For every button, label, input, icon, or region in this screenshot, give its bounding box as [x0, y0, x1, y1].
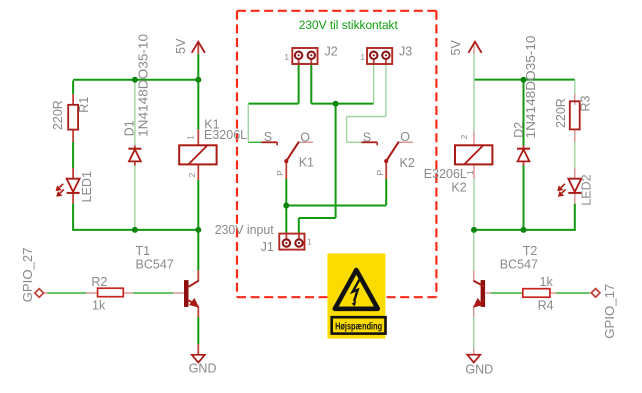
- svg-text:1: 1: [465, 170, 475, 175]
- svg-text:1: 1: [285, 53, 290, 62]
- svg-text:Højspænding: Højspænding: [335, 321, 382, 332]
- svg-text:1N4148DO35-10: 1N4148DO35-10: [137, 34, 151, 137]
- svg-text:GND: GND: [465, 362, 493, 376]
- svg-text:5V: 5V: [449, 39, 463, 55]
- svg-text:E3206L: E3206L: [204, 128, 247, 142]
- svg-text:J3: J3: [399, 45, 412, 59]
- svg-text:O: O: [400, 130, 410, 144]
- svg-text:1N4148DO35-10: 1N4148DO35-10: [524, 35, 538, 138]
- svg-text:2: 2: [187, 172, 197, 177]
- svg-text:K2: K2: [451, 180, 466, 194]
- svg-text:1k: 1k: [92, 299, 106, 313]
- svg-text:K2: K2: [400, 156, 415, 170]
- svg-text:GND: GND: [189, 361, 217, 375]
- svg-text:GPIO_17: GPIO_17: [603, 284, 617, 339]
- svg-text:T1: T1: [136, 244, 151, 258]
- svg-text:230V til stikkontakt: 230V til stikkontakt: [299, 18, 399, 32]
- svg-text:S: S: [264, 130, 272, 144]
- svg-text:1k: 1k: [540, 275, 554, 289]
- svg-text:J1: J1: [261, 240, 274, 254]
- svg-text:1: 1: [186, 135, 196, 140]
- svg-text:P: P: [375, 169, 385, 175]
- svg-text:K1: K1: [299, 156, 314, 170]
- svg-text:O: O: [300, 130, 310, 144]
- svg-text:T2: T2: [523, 244, 538, 258]
- svg-text:2: 2: [459, 134, 469, 139]
- svg-text:D1: D1: [123, 120, 137, 136]
- svg-text:J2: J2: [325, 45, 338, 59]
- svg-text:LED2: LED2: [579, 174, 593, 205]
- svg-text:LED1: LED1: [80, 171, 94, 202]
- svg-text:1: 1: [361, 53, 366, 62]
- svg-text:R2: R2: [91, 275, 107, 289]
- svg-text:230V input: 230V input: [215, 223, 275, 237]
- svg-text:E3206L: E3206L: [424, 167, 467, 181]
- svg-text:1: 1: [307, 238, 312, 247]
- svg-text:R4: R4: [538, 299, 554, 313]
- svg-text:R1: R1: [77, 97, 91, 113]
- svg-text:BC547: BC547: [136, 257, 174, 271]
- svg-text:P: P: [275, 170, 285, 176]
- svg-text:GPIO_27: GPIO_27: [21, 247, 35, 302]
- svg-text:5V: 5V: [174, 38, 188, 54]
- svg-text:220R: 220R: [554, 98, 568, 128]
- svg-text:S: S: [363, 130, 371, 144]
- svg-text:R3: R3: [578, 95, 592, 111]
- svg-text:BC547: BC547: [500, 258, 538, 272]
- svg-text:220R: 220R: [51, 100, 65, 130]
